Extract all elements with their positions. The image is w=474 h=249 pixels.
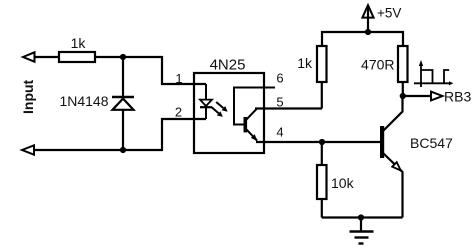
+5V rail wire	[322, 32, 403, 46]
phototransistor collector	[247, 109, 257, 120]
diode D1 triangle	[113, 99, 134, 110]
transistor Q1 base bar	[380, 126, 384, 158]
wire R3 to collector node	[402, 82, 404, 96]
phototransistor emitter arrowhead	[251, 134, 258, 141]
svg-text:4: 4	[276, 125, 283, 140]
svg-text:+5V: +5V	[377, 5, 401, 20]
+5V stem	[367, 8, 369, 32]
phototransistor emitter	[247, 130, 258, 141]
resistor R3 body (470R)	[398, 46, 408, 82]
wire R4 to ground rail	[321, 199, 323, 218]
wire arrow to R1	[35, 56, 60, 58]
node junction D1 anode	[120, 147, 126, 153]
transistor Q1 collector	[383, 96, 403, 131]
transistor Q1 emitter arrowhead (open)	[392, 162, 401, 170]
svg-text:1: 1	[175, 71, 182, 86]
phototransistor bar	[244, 117, 248, 132]
svg-text:4N25: 4N25	[210, 57, 246, 74]
wire pin 4 to Q1 base	[256, 141, 380, 143]
wire base node to R4	[321, 142, 323, 165]
svg-text:1N4148: 1N4148	[59, 93, 108, 109]
ground symbol	[360, 218, 362, 232]
node junction collector/RB3	[400, 93, 406, 99]
+5V arrow (open triangle)	[362, 5, 373, 17]
svg-text:Input: Input	[20, 79, 36, 114]
svg-text:6: 6	[276, 71, 283, 86]
svg-text:RB3: RB3	[444, 89, 471, 105]
svg-text:10k: 10k	[331, 175, 355, 191]
LED triangle	[200, 100, 212, 106]
svg-text:BC547: BC547	[410, 135, 453, 151]
optocoupler U1 4N25 box	[194, 73, 264, 153]
input terminal arrow (bottom left, open triangle)	[22, 145, 34, 154]
transistor Q1 emitter	[383, 153, 403, 218]
input terminal arrow (top left, open triangle)	[23, 52, 35, 61]
wire pin 5 to R2	[255, 107, 322, 109]
resistor R1 body	[59, 52, 95, 62]
svg-text:470R: 470R	[361, 57, 394, 73]
svg-text:2: 2	[175, 104, 182, 119]
node junction ground	[358, 214, 364, 220]
diode D1 cathode bar	[112, 96, 134, 98]
waveform pulse trace	[421, 70, 433, 83]
waveform icon horizontal axis	[414, 82, 450, 84]
wire bottom input to opto pin 2	[34, 119, 206, 150]
ground rail wire	[322, 216, 403, 218]
RB3 arrow (open triangle)	[431, 92, 443, 101]
LED cathode bar	[200, 106, 212, 108]
wire node to D1 cathode	[122, 57, 124, 96]
wire R2 to pin 5	[321, 82, 323, 109]
light arrow B	[212, 107, 219, 113]
svg-text:1k: 1k	[297, 55, 313, 71]
waveform icon vertical axis	[420, 63, 422, 87]
phototransistor base lead + pin 6 stub	[234, 88, 275, 125]
svg-text:5: 5	[276, 94, 283, 109]
resistor R2 body (1k vertical)	[317, 46, 327, 82]
node junction R1/D1	[120, 54, 126, 60]
wire to RB3 arrow	[403, 95, 431, 97]
LED cathode lead	[205, 107, 207, 119]
node junction base/10k	[319, 139, 325, 145]
LED anode lead inside U1	[205, 84, 207, 99]
wire D1 anode down	[122, 110, 124, 150]
light arrow A	[216, 102, 223, 108]
node junction +5V	[365, 29, 371, 35]
svg-text:1k: 1k	[71, 35, 87, 51]
resistor R4 body (10k)	[317, 165, 327, 199]
wire R1 to opto pin 1	[95, 57, 206, 84]
